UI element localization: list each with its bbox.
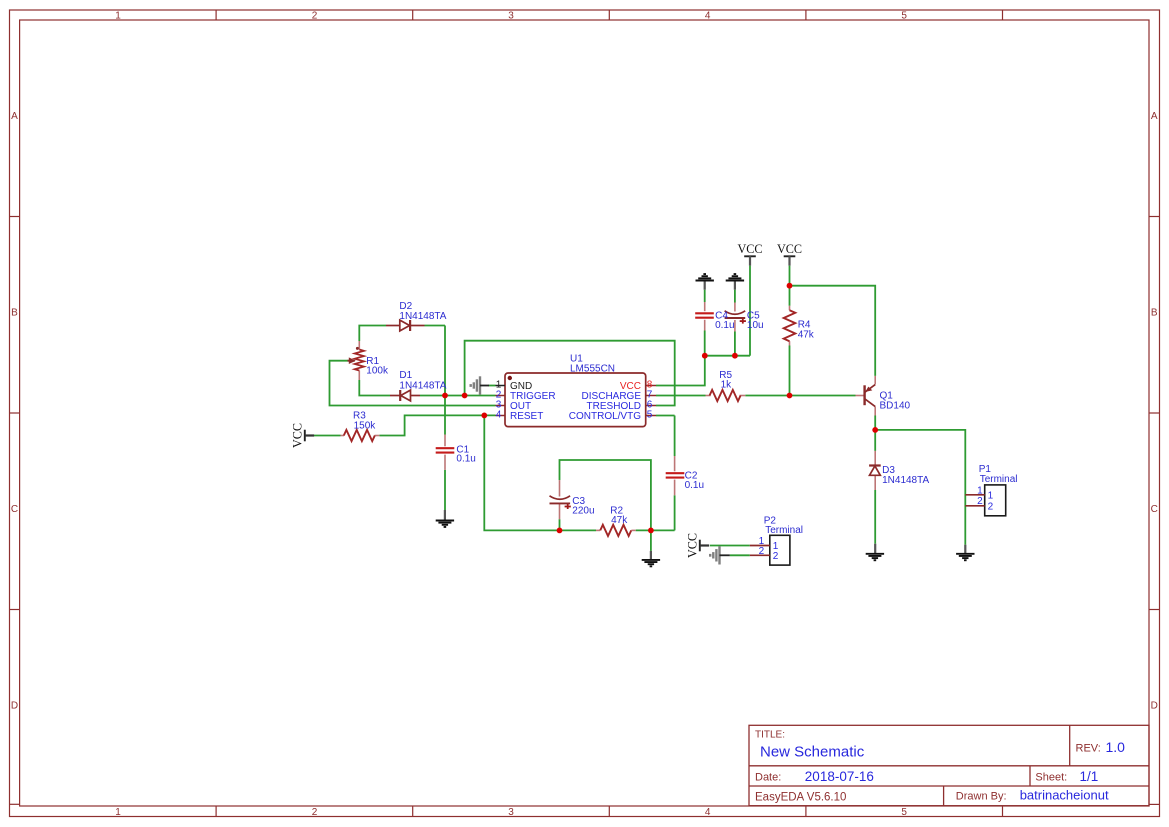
svg-text:5: 5 xyxy=(901,11,907,22)
svg-text:3: 3 xyxy=(508,11,514,22)
svg-text:1N4148TA: 1N4148TA xyxy=(399,311,446,322)
svg-text:New Schematic: New Schematic xyxy=(760,744,865,761)
svg-text:5: 5 xyxy=(647,410,653,421)
svg-text:1k: 1k xyxy=(721,380,733,391)
svg-text:4: 4 xyxy=(705,807,711,818)
svg-text:Sheet:: Sheet: xyxy=(1035,772,1067,784)
svg-text:2: 2 xyxy=(312,11,318,22)
svg-text:B: B xyxy=(1151,308,1158,319)
svg-text:1.0: 1.0 xyxy=(1106,739,1126,755)
svg-text:TITLE:: TITLE: xyxy=(755,730,785,741)
svg-text:220u: 220u xyxy=(572,505,594,516)
svg-text:1N4148TA: 1N4148TA xyxy=(882,475,929,486)
svg-text:2: 2 xyxy=(988,502,994,513)
svg-text:B: B xyxy=(11,308,18,319)
svg-text:REV:: REV: xyxy=(1076,743,1101,755)
svg-text:3: 3 xyxy=(508,807,514,818)
svg-text:C: C xyxy=(1151,504,1158,515)
svg-text:Terminal: Terminal xyxy=(980,474,1018,485)
svg-text:VCC: VCC xyxy=(737,242,762,256)
svg-text:10u: 10u xyxy=(747,320,764,331)
svg-text:1: 1 xyxy=(115,807,121,818)
svg-text:4: 4 xyxy=(705,11,711,22)
svg-text:1: 1 xyxy=(988,491,994,502)
svg-text:2: 2 xyxy=(977,496,983,507)
svg-text:D: D xyxy=(11,701,18,712)
svg-text:VCC: VCC xyxy=(291,423,305,448)
svg-text:Terminal: Terminal xyxy=(765,525,803,536)
svg-text:A: A xyxy=(11,111,18,122)
svg-text:D: D xyxy=(1151,701,1158,712)
svg-text:VCC: VCC xyxy=(777,242,802,256)
svg-text:Drawn By:: Drawn By: xyxy=(956,790,1007,802)
svg-text:100k: 100k xyxy=(366,366,389,377)
svg-text:0.1u: 0.1u xyxy=(685,480,704,491)
svg-text:2018-07-16: 2018-07-16 xyxy=(805,769,874,784)
svg-text:5: 5 xyxy=(901,807,907,818)
svg-text:1: 1 xyxy=(977,485,983,496)
svg-text:0.1u: 0.1u xyxy=(456,454,475,465)
svg-text:1N4148TA: 1N4148TA xyxy=(399,380,446,391)
svg-text:1/1: 1/1 xyxy=(1080,769,1099,784)
svg-text:A: A xyxy=(1151,111,1158,122)
svg-text:BD140: BD140 xyxy=(880,401,911,412)
svg-text:2: 2 xyxy=(312,807,318,818)
svg-text:4: 4 xyxy=(496,410,502,421)
svg-text:C: C xyxy=(11,504,18,515)
svg-text:1: 1 xyxy=(115,11,121,22)
svg-text:RESET: RESET xyxy=(510,411,543,422)
svg-text:batrinacheionut: batrinacheionut xyxy=(1020,788,1109,803)
svg-text:2: 2 xyxy=(759,546,765,557)
svg-text:LM555CN: LM555CN xyxy=(570,363,615,374)
svg-text:47k: 47k xyxy=(611,515,628,526)
svg-text:2: 2 xyxy=(773,551,779,562)
svg-text:VCC: VCC xyxy=(686,533,700,558)
svg-text:150k: 150k xyxy=(354,421,377,432)
svg-text:CONTROL/VTG: CONTROL/VTG xyxy=(569,411,641,422)
svg-text:Date:: Date: xyxy=(755,772,781,784)
svg-text:0.1u: 0.1u xyxy=(715,320,734,331)
svg-text:EasyEDA V5.6.10: EasyEDA V5.6.10 xyxy=(755,791,846,803)
svg-text:47k: 47k xyxy=(798,330,815,341)
